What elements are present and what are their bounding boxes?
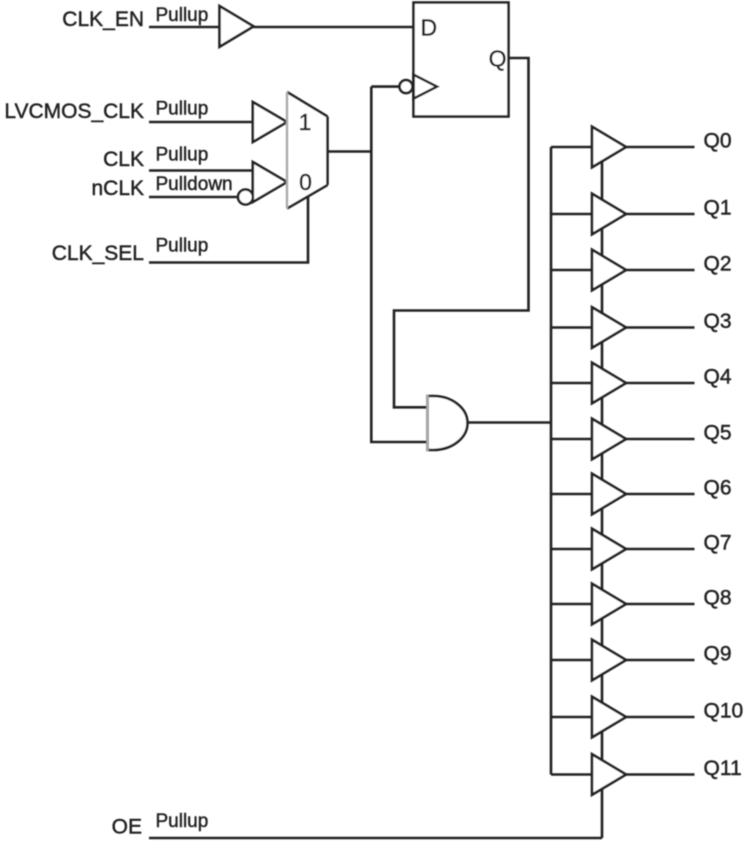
svg-text:Q: Q bbox=[489, 46, 507, 72]
svg-text:Q6: Q6 bbox=[704, 477, 732, 500]
svg-text:Pullup: Pullup bbox=[156, 811, 209, 832]
svg-text:0: 0 bbox=[299, 169, 312, 195]
svg-text:LVCMOS_CLK: LVCMOS_CLK bbox=[4, 100, 144, 123]
svg-text:1: 1 bbox=[299, 109, 312, 135]
svg-text:Pullup: Pullup bbox=[156, 99, 209, 120]
svg-text:nCLK: nCLK bbox=[91, 177, 144, 200]
svg-text:Q5: Q5 bbox=[704, 422, 732, 445]
svg-text:Q4: Q4 bbox=[704, 366, 732, 389]
svg-text:CLK_EN: CLK_EN bbox=[62, 8, 144, 31]
svg-text:Pullup: Pullup bbox=[156, 145, 209, 166]
svg-text:CLK_SEL: CLK_SEL bbox=[52, 242, 144, 265]
svg-text:Q7: Q7 bbox=[704, 532, 732, 555]
svg-text:Q2: Q2 bbox=[704, 253, 732, 276]
svg-text:D: D bbox=[421, 15, 438, 41]
svg-text:CLK: CLK bbox=[103, 148, 144, 171]
svg-text:Q1: Q1 bbox=[704, 197, 732, 220]
svg-text:Q8: Q8 bbox=[704, 587, 732, 610]
svg-text:Pullup: Pullup bbox=[156, 236, 209, 257]
svg-text:Q11: Q11 bbox=[704, 757, 742, 780]
svg-text:Q0: Q0 bbox=[704, 130, 732, 153]
svg-text:Pulldown: Pulldown bbox=[156, 174, 233, 195]
svg-text:Q9: Q9 bbox=[704, 643, 732, 666]
svg-text:Q3: Q3 bbox=[704, 310, 732, 333]
svg-text:Q10: Q10 bbox=[704, 700, 744, 723]
svg-text:Pullup: Pullup bbox=[156, 5, 209, 26]
svg-text:OE: OE bbox=[112, 816, 142, 839]
